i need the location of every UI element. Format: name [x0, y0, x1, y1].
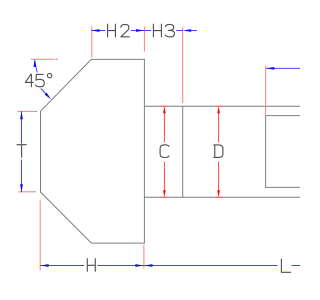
red overlap segment D top — [215, 105, 223, 107]
label H3 — [153, 24, 161, 37]
dimension line D — [218, 113, 220, 143]
arrow H left — [40, 264, 48, 267]
dimension line T — [21, 111, 23, 143]
extension line H2/H3 shared — [143, 27, 145, 52]
angular leader lower stem — [41, 89, 46, 95]
dimension line right (cropped) — [266, 67, 300, 69]
arrow T bottom — [20, 184, 23, 192]
extension line H3 right — [182, 27, 184, 103]
extension line T top — [17, 110, 34, 112]
extension line H2 left — [91, 27, 93, 58]
angular leader upper stem — [35, 60, 38, 73]
arrow H2 right — [136, 29, 144, 32]
label T — [17, 145, 26, 158]
section divider C|D — [182, 106, 184, 197]
tick gray 45deg — [55, 58, 57, 60]
extension line H left — [39, 200, 41, 270]
label D — [214, 145, 223, 158]
label 45deg — [25, 74, 33, 86]
dimension line H2 — [91, 30, 105, 32]
shaft bottom line — [144, 196, 300, 198]
tick gray T top — [35, 110, 37, 112]
head outline (bolt head side view with 45-degree chamfers) — [41, 59, 145, 243]
arrow H right — [135, 264, 143, 267]
angular arrow top — [33, 59, 36, 67]
dimension tail H3 — [190, 30, 197, 32]
angular arrow bottom — [45, 93, 51, 100]
label H2 — [108, 24, 116, 37]
tick gray T bottom — [33, 191, 35, 193]
extension line H/L shared — [143, 245, 145, 269]
shaft top line — [144, 105, 300, 107]
arrow D down — [217, 190, 220, 197]
extension line T bottom — [18, 191, 33, 193]
extension line right dim — [265, 66, 267, 115]
red overlap segment C bottom — [159, 196, 168, 198]
arrow D up — [217, 106, 220, 113]
dimension line H3 — [144, 30, 151, 32]
label L — [281, 259, 290, 272]
label H — [87, 259, 95, 272]
red overlap segment D bottom — [215, 196, 223, 198]
arrow L left — [144, 264, 152, 267]
arrow right dim — [266, 67, 274, 70]
arrow T top — [20, 111, 23, 119]
extension line 45deg — [31, 58, 54, 60]
arrow H3 right (outside) — [183, 29, 191, 32]
arrow C down — [163, 190, 166, 197]
dimension line H — [40, 265, 84, 267]
reduced section rectangle (cropped at right) — [266, 116, 300, 188]
dimension line C — [163, 113, 165, 143]
label C — [160, 145, 169, 158]
dimension line L — [144, 265, 277, 267]
arrow H2 left — [91, 29, 99, 32]
red overlap segment C top — [159, 105, 168, 107]
arrow C up — [163, 106, 166, 113]
